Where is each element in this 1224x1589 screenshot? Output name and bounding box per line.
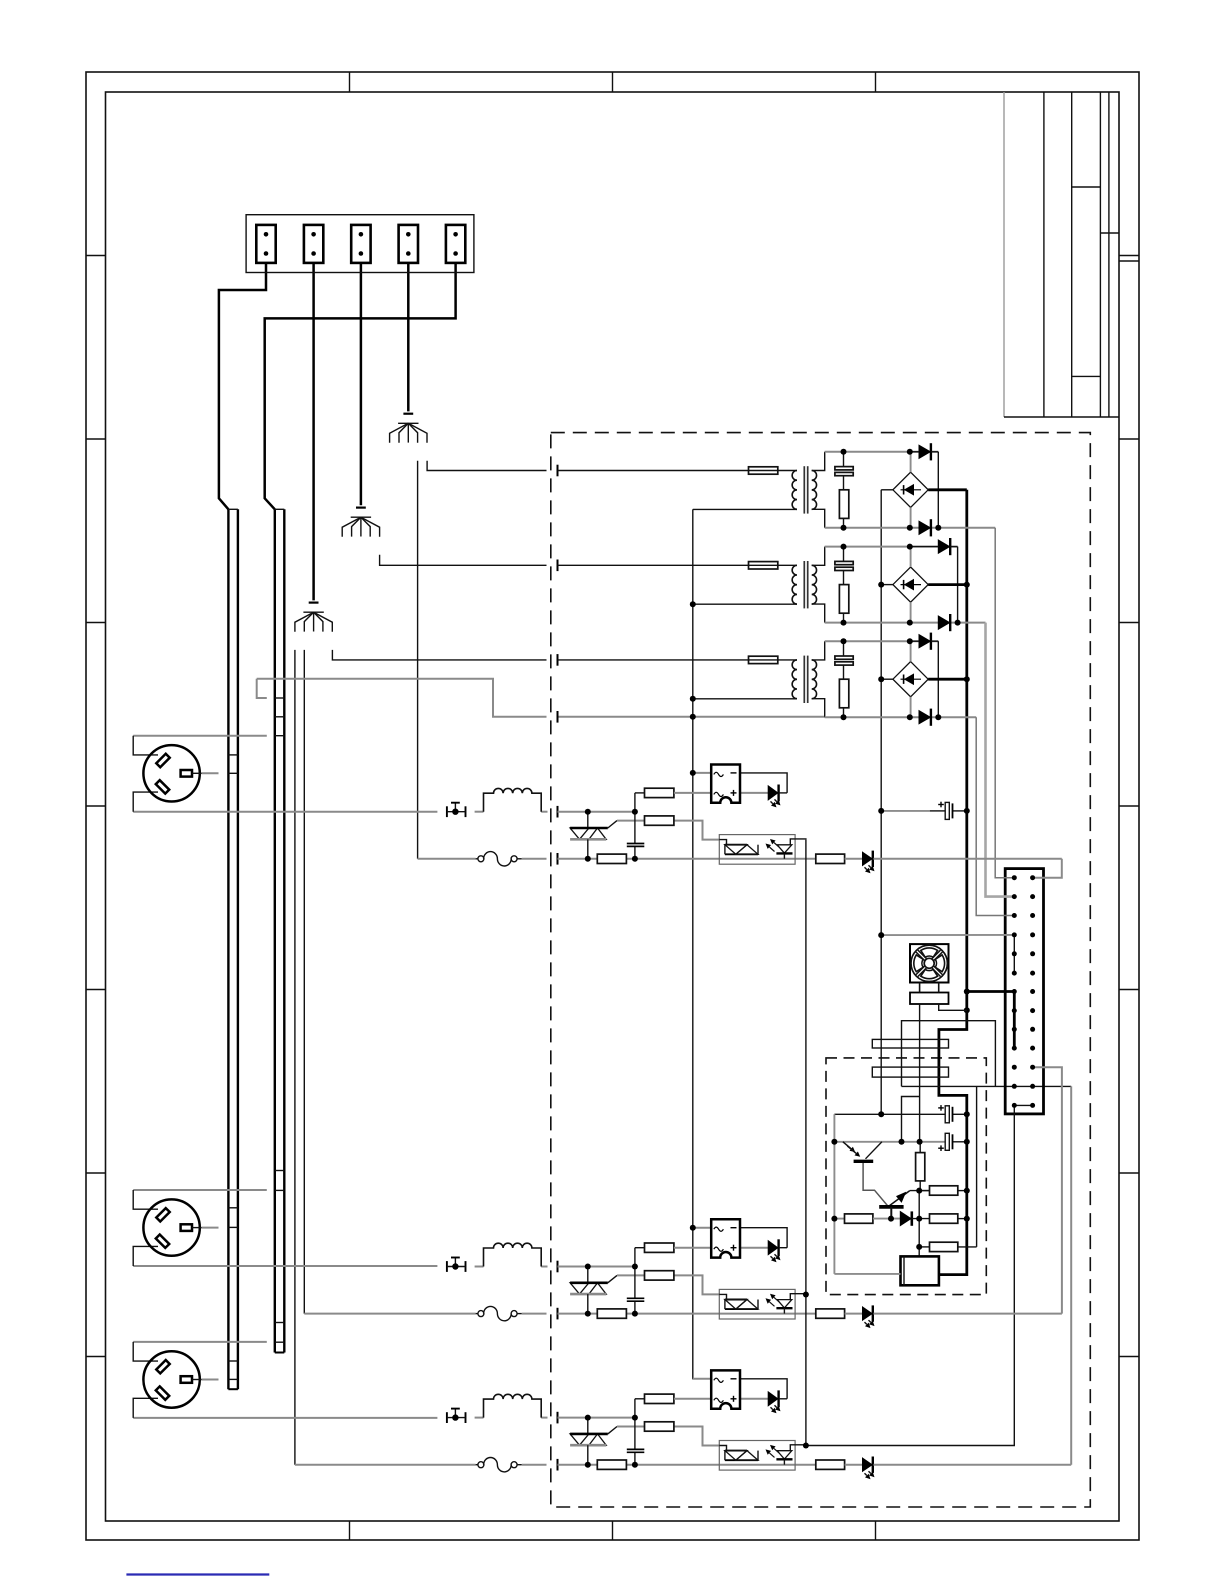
plug P3 body circle [143,1351,199,1407]
wire channel B status tail [874,1313,1062,1315]
wire T3 primary return [693,698,797,700]
circuit breaker CB3 [476,1458,547,1472]
feedthrough pin [557,654,559,666]
wire D1a cathode drop [937,452,939,528]
diode D1b [919,519,931,536]
wire T3 secondary bottom jog [812,699,825,718]
plug P1 bracket left edge [133,736,158,812]
triac Q1 [570,812,608,859]
fan M1 connector [910,993,949,1005]
optocoupler U3 outline [719,1441,795,1471]
wire L2 to feedthrough [541,1266,547,1268]
wire module PS2 minus loop [740,1228,787,1248]
cable bar 1 [228,509,238,1389]
title block bottom line [1004,416,1119,418]
wire channel 1 return row [558,858,598,860]
node ac bus B2 dot [878,582,884,588]
thermal switch S3 [447,1409,466,1423]
wire PE3 line to breaker CB2 [304,1313,475,1315]
capacitor C7 block [872,1067,948,1077]
node DC bus fan dot [964,1007,970,1013]
terminal X1 [256,225,275,263]
border inner frame [106,92,1120,1521]
plug P1 slanted pin [156,780,169,793]
node ac bus B3 dot [878,676,884,682]
plug P2 neutral pin wire [192,1227,219,1229]
wire triac Q3 mt2 row [558,1417,635,1419]
wire triac Q2 gate [608,1275,645,1282]
wire D10 to R13 [912,1218,930,1220]
terminal X5 pin dot lower [453,251,458,256]
wire S1 to L1 [475,811,484,813]
border zone tick left [86,989,106,991]
resistor R13 [930,1214,958,1223]
wire bridge B3 output heavy [928,678,967,681]
wire ac bus to pin4 [881,934,1014,936]
wire L1 to feedthrough [541,811,547,813]
resistor R3g gate [645,1422,674,1431]
border zone tick bottom [875,1521,877,1540]
wire C4 right [953,810,967,812]
capacitor C2t [627,1298,645,1301]
wire T3 positive rail [825,640,939,642]
optocoupler U2 outline [719,1289,795,1319]
transformer T3 core [804,656,807,703]
transformer T1 secondary winding [812,471,817,510]
circuit breaker CB2 [476,1306,547,1320]
node opto bus dot C [803,1443,809,1449]
wire R3g to opto U3 [674,1427,719,1446]
fan M1 rotor [911,945,947,981]
inductor L3 [484,1394,542,1417]
resistor R10 [916,1142,925,1191]
wire base row [919,1190,929,1192]
optocoupler U1 triac [719,840,758,855]
fuse F1 [749,467,778,474]
wire rectifier1 dc to pin1 [995,528,1014,878]
wire channel C status to pin12 right [1070,1086,1072,1464]
wire T1 positive rail [825,451,939,453]
capacitor C3 [835,641,853,679]
border zone tick right [1119,1356,1139,1358]
border zone tick right [1119,805,1139,807]
wire feed to fuse F2 [558,564,749,566]
wire terminal 4 to ground PE1 [407,263,410,412]
module PS2 tilde marks [714,1227,724,1251]
wire module PS3 plus to LED [740,1398,768,1400]
node common return bus dot [690,714,696,720]
wire phototransistor row [834,1141,945,1143]
wire fuse F1 to T1 primary [778,470,797,472]
triac Q2 [570,1267,608,1314]
node bus module A dot [690,770,696,776]
inductor L1 [484,788,542,811]
wire fuse F2 to T2 primary [778,564,797,566]
diode D3a [910,633,939,650]
wire opto U2 input row [626,1313,815,1315]
resistor R2g gate [645,1271,674,1280]
border zone tick bottom [612,1521,614,1540]
connector J1 outline [1005,869,1043,1114]
border zone tick top [612,72,614,92]
capacitor C1t [627,844,645,847]
wire T3 negative rail [825,716,977,718]
plug P2 slanted pin [156,1208,169,1221]
resistor R2s [597,1309,626,1318]
plug P3 slanted pin [156,1360,169,1373]
LED D1s status [845,851,875,874]
resistor R1a bleeder [839,490,848,528]
fan M1 frame [910,944,949,982]
node triac Q2 top dots [585,1264,638,1270]
wire R11 to bus [958,1190,967,1192]
border zone tick right [1119,438,1139,440]
wire terminal 1 to cable bar 1 [219,263,266,509]
wire T2 negative rail [825,622,986,624]
wire S2 to L2 [475,1266,484,1268]
wire module PS1 plus to LED [740,792,768,794]
module PS3 minus mark [731,1378,737,1380]
wire Q1 sense upper [902,1021,996,1087]
wire feed to fuse F1 [558,470,749,472]
plug P1 neutral pin [181,770,192,777]
feedthrough pin [557,853,559,865]
wire PE3 to channel C lower feed [294,650,296,1465]
resistor R3s [597,1460,626,1469]
thermal switch S2 [447,1258,466,1272]
wire T2 primary return [693,603,797,605]
connector J1 pins [1012,875,1035,1108]
inductor L2 [484,1243,542,1266]
optocoupler U3 led [766,1445,806,1465]
border zone tick top [349,72,351,92]
module PS2 plus mark [731,1245,737,1251]
wire bridge B2 ac left stub [881,584,893,586]
wire S3 to L3 [475,1417,484,1419]
wire DC bus heavy [939,490,967,1275]
capacitor C1 [835,452,853,490]
transformer T3 secondary winding [812,660,817,699]
title block column line [1071,92,1073,417]
resistor R1o [816,854,845,863]
fuse F3 [749,656,778,663]
resistor R14 [919,1242,976,1251]
wire PE3 to transformer T3 feed [332,650,546,660]
plug P2 body circle [143,1199,199,1255]
wire PE3 to channel B lower feed [303,650,305,1314]
wire row12 horizontal [902,1085,1072,1087]
wire D3a cathode drop [937,641,939,717]
LED D1L indicator [768,785,787,808]
bridge rectifier B1 [893,452,928,528]
wire channel C status tail [874,1464,1072,1466]
wire C4 left [881,810,945,812]
capacitor C2 [835,547,853,585]
wire T1 secondary top jog [812,452,825,471]
border zone tick bottom [349,1521,351,1540]
border zone tick right [1119,989,1139,991]
wire R13 to bus [958,1218,967,1220]
wire bridge B1 output heavy [928,488,967,491]
feedthrough pin [557,1308,559,1320]
module PS1 plus mark [731,790,737,796]
terminal X2 pin dot upper [311,232,316,237]
wire T2 secondary top jog [812,547,825,566]
blue reference line [126,1573,269,1575]
border zone tick right [1119,1172,1139,1174]
ground PE2 [342,508,379,537]
transformer T2 secondary winding [812,565,817,604]
transistor Q1 photo [843,1142,888,1206]
resistor R12 [845,1214,873,1223]
LED D3L indicator [768,1390,787,1413]
node control board dots [831,1111,969,1250]
fuse F2 [749,562,778,569]
plug P2 neutral pin [181,1224,192,1231]
wire Q1 collector link [902,1097,920,1143]
transformer T1 primary winding [792,471,797,510]
resistor R1m [635,788,711,797]
wire PE3 line to breaker CB3 [295,1464,476,1466]
node triac Q1 bottom dots [585,856,638,862]
capacitor C3t [627,1449,645,1452]
border zone tick left [86,1356,106,1358]
wire opto U1 input row [626,858,815,860]
wire divider vertical [634,793,636,859]
thermal switch S1 [447,803,466,817]
ground PE1 [390,414,427,443]
wire common return to T3 rail [558,716,825,718]
border zone tick left [86,805,106,807]
resistor R3o [816,1460,845,1469]
wire PE1 to channel A lower feed [417,461,419,859]
node ac bus pin4 dot [878,932,884,938]
plug P2 slanted pin [156,1234,169,1247]
terminal X3 pin dot upper [359,232,364,237]
resistor R3m [635,1394,711,1403]
module PS3 tilde marks [714,1378,724,1402]
optocoupler U2 triac [719,1294,758,1309]
terminal X3 [351,225,370,263]
wire channel A status tail [874,858,1062,860]
terminal X2 pin dot lower [311,251,316,256]
wire R1g to opto U1 [674,821,719,840]
wire bridge B1 ac left stub [881,489,893,491]
wire T3 secondary top jog [812,641,825,660]
feedthrough pin [557,806,559,818]
wire bus to module PS3 [693,1378,711,1380]
optocoupler U1 outline [719,835,795,865]
wire C9 right [953,1141,967,1143]
wire module PS1 minus loop [740,773,787,793]
plug P3 neutral pin wire [192,1379,219,1381]
terminal X2 [304,225,323,263]
title block divider [1072,186,1101,188]
node bus T2 dot [690,601,696,607]
wire opto gate bus to pin13 [806,1105,1014,1445]
transistor Q2 [879,1191,929,1219]
wire channel A status to pin1 right [1033,859,1062,878]
wire module PS2 plus to LED [740,1247,768,1249]
wire channel 3 return row [558,1464,598,1466]
wire divider vertical [634,1399,636,1465]
wire fan leg left [919,983,921,1143]
optocoupler U1 led [766,839,806,859]
bridge rectifier B2 [893,547,928,623]
node opto bus dot B [803,1292,809,1298]
wire emitter row [834,1218,844,1220]
title block left line [1003,92,1005,417]
bridge rectifier B3 [893,641,928,717]
title block zone tick [1119,260,1139,262]
node bus T3 dot [690,696,696,702]
node triac Q1 top dots [585,809,638,815]
wire R2g to opto U2 [674,1275,719,1294]
diode D3b [919,709,931,726]
plug P3 bracket top wire [133,1341,267,1343]
connector J1 link pins 4-6 [1013,935,1015,973]
border zone tick left [86,1172,106,1174]
wire rectifier3 dc to pin3 [976,717,1014,915]
plug P1 neutral pin wire [192,772,219,774]
wire control column [976,1086,978,1247]
border zone tick left [86,622,106,624]
feedthrough pin [557,1459,559,1471]
terminal X4 pin dot lower [406,251,411,256]
terminal block outline [246,215,474,273]
border zone tick left [86,255,106,257]
rectifier module PS2 [711,1219,740,1257]
plug P3 bracket bottom wire left [133,1417,437,1419]
transformer T2 core [804,561,807,608]
feedthrough pin [557,465,559,477]
wire VR1 left pin [834,1273,900,1275]
resistor R2a bleeder [839,585,848,623]
feedthrough pin [557,1261,559,1273]
wire bridge B2 output heavy [928,583,967,586]
rectifier module PS3 [711,1370,740,1408]
wire terminal 5 to cable bar 2 [265,263,456,509]
node triac Q3 bottom dots [585,1462,638,1468]
resistor R2o [816,1309,845,1318]
node DC bus bridge2 dot [964,582,970,588]
terminal X4 [399,225,418,263]
border outer frame [86,72,1139,1540]
plug P3 bracket left edge [133,1342,158,1418]
wire PE1 line to breaker CB1 [418,858,476,860]
wire L3 to feedthrough [541,1417,547,1419]
resistor R11 [930,1186,958,1195]
plug P1 bracket top wire [133,735,267,737]
wire T1 secondary bottom jog [812,509,825,528]
dashed enclosure control board [826,1058,986,1295]
wire common return hook [257,679,267,698]
wire PE2 to transformer T2 feed [380,555,547,566]
wire to regulator VR1 [918,1247,920,1257]
transformer T2 primary winding [792,565,797,604]
LED D2L indicator [768,1239,787,1262]
wire triac Q3 gate [608,1427,645,1434]
plug P3 neutral pin [181,1376,192,1383]
wire R12 to diode [873,1218,901,1220]
border zone tick top [875,72,877,92]
capacitor C8 electrolytic [938,1105,952,1123]
dashed enclosure power board [551,433,1091,1507]
plug P2 bracket bottom wire left [133,1265,437,1267]
wire control board left rail [833,1114,835,1274]
resistor R1g gate [645,816,674,825]
node T2 rail junction dots [841,544,961,626]
wire terminal 2 to ground PE3 [312,263,315,601]
cable bar 2 [275,509,285,1352]
wire module PS3 minus loop [740,1379,787,1399]
optocoupler U2 led [766,1294,806,1314]
wire bus to module PS1 [693,772,711,774]
diode D10 [900,1211,912,1225]
plug P1 body circle [143,745,199,801]
wire bridge B3 ac left stub [881,678,893,680]
wire triac Q1 gate [608,821,645,828]
wire control board top rail [834,1113,945,1115]
wire common return upper [257,679,547,717]
diode D2b [938,614,950,631]
border zone tick left [86,438,106,440]
title block column line [1108,92,1110,417]
title block divider [1100,232,1119,234]
wire feedback drop [918,1191,920,1247]
LED D2s status [845,1305,875,1328]
title block divider [1072,375,1101,377]
wire T2 secondary bottom jog [812,604,825,623]
border zone tick right [1119,622,1139,624]
plug P2 bracket top wire [133,1189,267,1191]
wire T1 negative rail [825,527,996,529]
ground PE3 [295,603,332,632]
feedthrough pin [557,1412,559,1424]
wire channel B status to pin11 right [1033,1067,1062,1313]
wire D2a cathode drop [957,547,959,623]
node triac Q2 bottom dots [585,1311,638,1317]
wire triac Q2 mt2 row [558,1266,635,1268]
module PS2 minus mark [731,1227,737,1229]
resistor R2m [635,1243,711,1252]
title block column line [1043,92,1045,417]
resistor R3a bleeder [839,679,848,717]
terminal X1 pin dot lower [264,251,269,256]
circuit breaker CB1 [476,852,547,866]
LED D3s status [845,1457,875,1480]
module PS3 plus mark [731,1396,737,1402]
node T1 rail junction dots [841,449,942,531]
module PS1 tilde marks [714,772,724,796]
wire bus to module PS2 [693,1227,711,1229]
node C4 dots [878,808,970,814]
node triac Q3 top dots [585,1415,638,1421]
terminal X5 [446,225,465,263]
capacitor C6 block [872,1039,948,1048]
plug P1 bracket bottom wire left [133,811,437,813]
connector J1 heavy link pins 7-10 [1013,992,1016,1049]
terminal X3 pin dot lower [359,251,364,256]
wire opto feedback bus [805,840,807,1446]
wire DC bus to connector heavy [967,990,1015,993]
node DC bus connector dot [964,989,970,995]
transformer T3 primary winding [792,660,797,699]
wire fan leg right [939,983,967,1011]
node T3 rail junction dots [841,638,942,720]
wire bridge ac bus [880,490,882,1115]
wire triac Q1 mt2 row [558,811,635,813]
